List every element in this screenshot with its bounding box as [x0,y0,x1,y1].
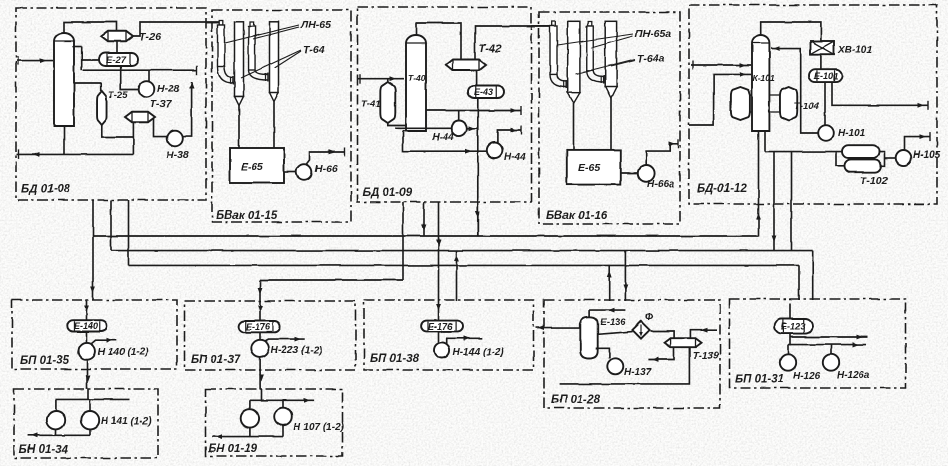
unit boundary БД 01-09 [358,7,532,202]
wire: outlet to Е-136 left / block exit [536,327,580,329]
arrow to 01-19 [259,375,264,382]
svg-text:Н 140 (1-2): Н 140 (1-2) [98,347,149,358]
svg-text:Е-65: Е-65 [578,162,600,174]
svg-text:БВак 01-16: БВак 01-16 [546,210,608,222]
wire: column overhead to Т-42 [417,23,462,60]
arrow into Е-176 (01-37) [258,306,263,313]
wire: Н-223 to БН 01-19 [259,357,261,389]
wire: drop БД 01-09 to line A [423,202,425,236]
wire: header drop to Е-136 [589,310,591,317]
wire: Н-38 discharge riser [183,82,192,137]
tick product Н-44 [520,106,522,115]
wire: Т-41 bottom stub [388,123,406,126]
wire: feed into column (БД 01-09) [358,78,404,80]
arrowhead inside Ф [639,332,643,337]
wire: riser pump Н-107/1 [249,400,251,409]
column (БД 01-09) [406,35,426,131]
wire: riser Н-126 [787,345,789,355]
stub Т-104R bottom [769,111,780,113]
arrow Н-44а suction [466,149,473,154]
svg-text:Н-223 (1-2): Н-223 (1-2) [271,345,323,356]
thermosiphon reboiler Т-104 right [780,87,797,120]
wire: К-101 bottoms drop [764,131,766,152]
svg-text:БД 01-08: БД 01-08 [21,184,71,196]
wire: riser Н-126а [830,345,832,355]
leader Т-64 a [241,50,301,78]
steam ejector ПН-65а second stage [587,22,604,84]
vessel Е-140 [67,320,107,331]
wire: Н-44 suction [395,127,451,129]
svg-text:БП 01-38: БП 01-38 [370,353,420,365]
filter Ф [632,321,649,338]
pump Н-137 [607,358,623,374]
tick feed1 [692,61,694,70]
leader ЛН-65 a [225,25,299,43]
wire: pump drop 2 (01-19) [282,425,284,436]
heat exchanger Т-139 [665,338,702,347]
wire: Е-123 drop [789,334,791,346]
svg-text:Е-136: Е-136 [600,317,626,328]
vessel Е-176 (01-37) [239,321,281,332]
wire: line D to БП 01-37 [260,279,403,281]
stub Т-104R top [769,94,780,96]
arrow on feed [40,58,47,63]
svg-text:БП 01-35: БП 01-35 [20,355,70,367]
barometric condenser Т-64а second [605,21,616,98]
wire: bottoms header to Т-102 [765,151,842,153]
wire: inlet to Е-140 [86,300,88,321]
svg-text:ЛН-65: ЛН-65 [300,19,331,31]
arrow product Н-44 [511,108,518,113]
svg-text:БД 01-09: БД 01-09 [363,187,413,199]
unit boundary БН 01-34 [14,389,158,458]
unit boundary БП 01-37 [185,301,356,370]
thermosiphon reboiler Т-104 left [731,87,750,120]
vessel Е-43 [468,86,504,99]
arrow Н-38 riser [189,82,194,89]
svg-text:Е-101: Е-101 [814,71,838,81]
leader Т-64 b [275,51,302,68]
wire: inlet to Е-176 (01-38) [438,301,440,321]
arrow bottoms header [33,152,40,157]
wire: Е-176 to Н-144 [438,331,440,342]
wire: line A collector [93,235,759,237]
unit boundary БП 01-35 [12,300,177,369]
svg-text:БВак 01-15: БВак 01-15 [216,210,278,222]
wire: Т-26 outlet riser to vacuum line [133,22,220,36]
arrow drop to 01-35 [91,287,96,294]
steam ejector ПН-65а first stage [550,21,566,89]
tick feed start [17,56,19,65]
tick bottoms header [18,150,20,159]
svg-text:БН 01-34: БН 01-34 [19,444,69,456]
heat exchanger Т-42 [446,60,486,71]
arrow product2 01-31 [853,342,860,347]
arrow feed 01-09 [390,76,397,81]
reboiler Т-41 [380,82,395,123]
arrow Т-139 drain [652,357,659,362]
wire: Н-140 discharge [91,340,116,344]
wire: riser pump Н-107/2 [282,400,284,408]
vessel Е-27 [99,53,138,66]
svg-text:ПН-65а: ПН-65а [635,28,671,40]
wire: drop БД 01-09 to line D [402,202,404,280]
pump Н-144 [434,342,450,358]
pump Н-44 [451,121,467,137]
wire: column bottoms drop [63,126,65,154]
wire: line C end into БП 01-31 [798,265,800,300]
wire: reflux drop [81,47,83,71]
pump Н-141 first [47,411,65,429]
wire: riser pump Н-141/1 [55,399,57,411]
wire: column sidedraw через Н-44 [426,110,521,112]
svg-text:Т-104: Т-104 [794,101,820,112]
svg-text:Е-176: Е-176 [246,322,271,332]
svg-text:Н-38: Н-38 [166,149,189,161]
wire: Е-101 to Н-101 [824,82,826,125]
vessel Е-176 (01-38) [421,321,462,332]
wire: tank to pump Н-66 [284,171,296,173]
tank Е-65 (БВак 01-16) [567,150,621,185]
wire: Н-66а discharge [646,144,678,165]
wire: Т-37 to pump Н-38 [154,119,168,137]
svg-text:Н-105: Н-105 [913,150,941,161]
barometric condenser Т-64 first [235,22,244,106]
arrow Н-140 discharge [107,338,114,343]
arrow feed Т-139 [701,328,708,333]
wire: Е-27 bottom to pump Н-28 [121,66,139,90]
svg-text:Т-102: Т-102 [860,175,888,187]
pump Н-66 [296,164,312,180]
wire: Н-28 riser [148,70,150,81]
svg-text:ХВ-101: ХВ-101 [837,45,872,56]
wire: barometric leg 1 [238,106,240,149]
svg-text:Т-41: Т-41 [361,99,381,110]
pump Н-223 [251,340,269,358]
svg-text:Н-44: Н-44 [504,152,526,163]
wire: suction header 01-34 [56,398,130,400]
vessel Е-123 [775,319,813,334]
svg-text:К-101: К-101 [753,73,776,83]
wire: discharge header 01-34 [28,434,90,436]
stub Т-104L bottom [750,111,752,113]
wire: vacuum line into ejectors 01-16 [532,25,553,27]
svg-text:Т-37: Т-37 [150,98,173,110]
wire: inlet header БН 01-19 [261,389,263,400]
svg-text:БП 01-37: БП 01-37 [191,354,241,366]
column (БД 01-08) [54,33,74,126]
wire: pump drop 1 (01-19) [249,428,251,437]
heat exchanger Т-26 [101,31,133,42]
wire: Н-44а discharge [498,130,522,143]
svg-text:Е-27: Е-27 [106,55,127,66]
tick feed start 01-09 [359,74,361,83]
tick product Е-101 [927,101,929,110]
wire: Т-139 bottoms run [560,347,690,384]
wire: Ф to Т-139 [651,331,675,338]
svg-text:БП 01-28: БП 01-28 [551,394,601,406]
heat exchanger Т-102 upper [842,145,879,158]
unit boundary БП 01-28 [544,300,720,408]
unit boundary БД-01-12 [689,5,937,204]
arrow drop 477 [475,212,480,219]
tank Е-65 (БВак 01-15) [230,148,284,183]
tick distillate end [196,66,198,75]
arrow 774 down [772,236,777,243]
wire: Т-102 left jog [836,152,845,166]
barometric condenser Т-64а first [568,21,580,103]
unit boundary БД 01-08 [16,8,206,200]
wire: drop БД 01-08 to line B [110,200,112,251]
wire: product line 1 (01-31) [790,336,867,338]
arrow discharge 01-34 [31,433,38,438]
svg-text:Н-144 (1-2): Н-144 (1-2) [453,347,505,358]
arrow product Е-101 [918,103,925,108]
wire: column overhead to Т-26 [64,22,117,33]
barometric condenser Т-64 second [270,22,279,102]
wire: barometric leg 1 (01-16) [573,103,575,150]
pump Н-126 [780,354,796,370]
arrow discharge 01-19 [216,434,223,439]
arrow header 01-28 [608,308,615,313]
wire: К-101 overhead to ХВ-101 [761,22,821,41]
wire: pump drop 2 [89,429,91,435]
svg-text:Т-139: Т-139 [692,351,719,362]
wire: drop БД 01-08 to БП 01-35 [92,200,94,300]
svg-text:БН 01-19: БН 01-19 [208,443,258,455]
wire: line B end into БП 01-31 [812,251,814,300]
pump Н-105 [896,150,912,166]
wire: line A feeds К-101 [758,131,760,236]
svg-text:Н 107 (1-2): Н 107 (1-2) [293,422,344,433]
arrow reflux [773,46,780,51]
wire: Н-223 discharge [265,339,305,341]
wire: Н-140 to БН 01-34 [86,360,88,389]
wire: drop БД 01-09 to line B and БП 01-38 [438,202,440,301]
svg-text:Н-66а: Н-66а [647,179,675,190]
arrow drop 424 [422,225,427,232]
wire: riser pump Н-141/2 [89,399,91,411]
arrow to 01-34 [86,376,91,383]
wire: Т-42 to Е-43 [476,71,478,86]
unit boundary БВак 01-16 [539,12,680,224]
svg-text:Ф: Ф [645,311,654,323]
arrow into Е-140 [84,306,89,313]
wire: drop БД 01-08 to line C [128,200,130,265]
wire: suction header 01-19 [250,399,314,401]
wire: vacuum line into ejectors [206,22,220,24]
pump Н-38 [167,131,183,147]
pump Н-126а [823,354,839,370]
wire: Т-37 drain riser [132,123,134,155]
tick Н-44а discharge [521,126,523,135]
arrow Н-66 discharge [329,150,336,155]
leader ПН-65а b [591,36,633,48]
leader ПН-65а a [557,34,633,45]
wire: bottoms header [17,153,134,155]
arrow product1 01-31 [857,335,864,340]
arrow drop 438 [436,240,441,247]
arrow 609 up [607,271,612,278]
pump Н-141 second [81,411,99,429]
svg-text:Н 141 (1-2): Н 141 (1-2) [101,416,152,427]
arrow Н-144 discharge [464,336,471,341]
arrow feed2 К-101 [740,72,747,77]
svg-text:Е-140: Е-140 [74,321,98,331]
arrow Н-223 discharge [295,337,302,342]
wire: column bottom corner [403,130,406,132]
wire: discharge header 01-19 [212,436,283,438]
wire: drop Е-43 drain to line A [477,202,479,236]
unit boundary БП 01-38 [364,300,534,370]
wire: inlet header БН 01-34 [87,389,89,399]
pump Н-44а [487,143,503,159]
leader ЛН-65 b [253,27,299,39]
arrow Н-44а discharge [511,128,518,133]
svg-text:Т-25: Т-25 [108,90,128,101]
wire: product line from Е-101 [832,82,928,105]
wire: column stub to reflux drop [72,46,81,48]
wire: arrow inside Ф [640,325,642,335]
vessel Т-25 [97,91,107,125]
stub Т-104L top [750,94,752,96]
pump Н-66а [638,165,655,182]
wire: Е-43 drain to line A [477,98,479,236]
wire: feed into column K-1 [17,60,54,62]
svg-text:БД-01-12: БД-01-12 [697,183,747,195]
svg-text:Т-40: Т-40 [408,73,426,83]
wire: inlet to Е-176 (01-37) [259,301,261,321]
unit boundary БВак 01-15 [212,10,351,222]
pump Н-107 second [274,408,292,426]
wire: inlet header 01-28 [590,309,626,311]
wire: Т-102 to Н-105 [885,157,896,159]
vessel Е-101 [809,69,842,82]
arrow 456 up [454,255,459,262]
svg-text:Н-44: Н-44 [432,132,454,143]
svg-text:Н-101: Н-101 [838,128,866,139]
svg-text:Е-65: Е-65 [241,161,263,173]
wire: bottoms to Н-44а [403,131,487,151]
wire: ХВ-101 to Е-101 [820,54,822,69]
wire: Н-44 to drain line [467,127,478,129]
wire: pump drop 1 [55,429,57,435]
arrow block exit left [538,325,545,330]
wire: line B to БП 01-28 right [624,251,626,301]
svg-text:Н-28: Н-28 [157,83,180,95]
wire: distillate header y70 [83,69,197,71]
heat exchanger Т-102 lower [845,159,882,172]
wire: feed to Т-139 from right [690,330,717,338]
svg-text:Е-123: Е-123 [781,322,805,332]
arrow 625 down [623,285,628,292]
tick Н-66 discharge end [344,148,346,157]
leader Т-64а a [576,59,635,74]
wire: К-101 header to line B at 791 [791,152,793,251]
air cooler ХВ-101 [811,41,835,54]
arrow Н-66а discharge [669,141,676,146]
pump Н-107 first [241,409,259,427]
wire: tank to pump Н-66а [621,172,638,174]
wire: barometric leg 2 [273,102,275,148]
svg-text:Т-42: Т-42 [479,43,502,55]
pump Н-28 [139,81,155,97]
svg-text:Е-176: Е-176 [428,322,453,332]
pump Н-140 [79,343,96,360]
svg-text:Н-126а: Н-126а [837,370,870,381]
leader Т-64а b [611,60,635,66]
wire: inlet to Е-123 [789,303,791,319]
wire: drop line D to БП 01-37 [259,280,261,301]
wire: Е-136 to Н-137 [596,349,610,359]
vessel Е-136 [580,317,597,359]
tick Н-66а discharge [677,139,679,148]
wire: Т-25 bottom leg [102,125,134,137]
steam ejector ЛН-65 first stage [218,21,234,85]
svg-text:Н-66: Н-66 [315,163,338,175]
wire: barometric leg 2 (01-16) [610,98,612,150]
arrow Н-105 discharge [920,134,927,139]
wire: Т-42 to vacuum unit БВак 01-16 [475,23,552,60]
svg-text:Н-126: Н-126 [793,371,821,382]
arrow into Е-176 (01-38) [436,305,441,312]
wire: line B to БП 01-38 [456,251,458,301]
wire: Е-27 left outlet [82,59,100,61]
wire: feed 2 into К-101 [690,74,752,125]
svg-text:Т-26: Т-26 [139,31,161,43]
wire: Т-102 right link [879,152,885,166]
svg-text:Е-43: Е-43 [474,87,493,97]
wire: reboiler Т-41 top stub [387,79,389,82]
wire: Н-44 riser [458,111,460,122]
wire: feed 1 into К-101 [691,64,751,66]
wire: Т-139 drain left [648,347,674,360]
wire: line B collector [111,250,813,252]
wire: Т-26 to Е-27 [116,41,118,53]
wire: Н-101 reflux to column top [771,49,818,133]
wire: Е-136 to filter Ф [598,332,633,335]
wire: Н-66 discharge [306,152,345,165]
unit boundary БП 01-31 [730,299,906,388]
wire: line C to БП 01-28 left [609,265,611,301]
arrow header 01-19 [304,398,311,403]
svg-text:БП 01-31: БП 01-31 [735,374,784,386]
wire: Е-176 to Н-223 [259,332,261,340]
unit boundary БН 01-19 [206,389,343,456]
column К-101 [752,35,769,131]
steam ejector ЛН-65 second stage [249,22,268,82]
arrow drop to 01-37 [258,288,263,295]
svg-text:Т-64: Т-64 [303,44,325,56]
tick Н-105 discharge [929,132,931,141]
pump Н-101 [818,125,834,141]
arrow feed1 К-101 [740,63,747,68]
wire: К-101 header to line B at 774 [773,152,775,251]
wire: line C collector [129,264,800,266]
wire: column sidedraw to Т-25 [74,83,101,91]
wire: Н-144 discharge [447,338,483,344]
arrow 758 up [756,213,761,220]
wire: Е-140 to Н-140 [86,332,88,343]
svg-text:Н-137: Н-137 [624,367,652,378]
wire: Н-105 discharge [905,137,931,150]
svg-text:Т-64а: Т-64а [637,53,665,65]
heat exchanger Т-37 [125,112,155,123]
wire: pump header (01-31) [788,344,866,346]
arrow Н-44 to drain [469,126,476,131]
